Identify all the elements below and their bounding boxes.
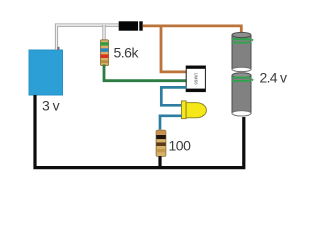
svg-text:100: 100 — [169, 138, 192, 154]
svg-text:2.4 v: 2.4 v — [260, 70, 288, 86]
wire: gray lead stub into BT1 (dark ferrule) — [57, 47, 59, 50]
wire: black negative bus (BT1 bottom, along bottom, to battery stack bottom) — [35, 95, 244, 168]
svg-text:5.6k: 5.6k — [114, 45, 140, 61]
battery cell B2 (bottom 1.2v cell) — [232, 73, 251, 116]
resistor R2 100 (brown-black-brown-gold) — [156, 130, 166, 156]
wire: black from R2 bottom to ground bus — [158, 156, 161, 167]
battery cell B1 (top 1.2v cell) — [232, 32, 251, 71]
resistor R1 5.6k (green-blue-red-gold) — [100, 40, 108, 66]
node: green + mark on cell B2 — [251, 79, 253, 81]
wire: gray positive lead from BT1 top to diode D1 — [57, 25, 119, 50]
diode D1 (black body with cathode band) — [119, 21, 143, 30]
wire: orange from D1 to battery stack top — [143, 26, 242, 34]
wire: blue from U1 pin 3 to LED anode — [161, 87, 186, 105]
IC U1 (white box with black caps) — [186, 66, 205, 92]
battery pack BT1 (3 v blue box) — [29, 50, 63, 95]
LED D2 (yellow) — [182, 101, 207, 119]
wire: orange branch down to IC U1 pin 1 — [161, 27, 187, 72]
wire: gray lead from top wire down to resistor R1 — [102, 25, 105, 41]
wire: blue from LED cathode to resistor R2 — [160, 116, 182, 130]
svg-text:UM66: UM66 — [193, 73, 198, 85]
wire: green from R1 bottom to IC U1 pin 2 — [104, 65, 187, 81]
svg-text:3 v: 3 v — [42, 98, 60, 114]
node: green + mark on cell B1 — [251, 39, 253, 41]
